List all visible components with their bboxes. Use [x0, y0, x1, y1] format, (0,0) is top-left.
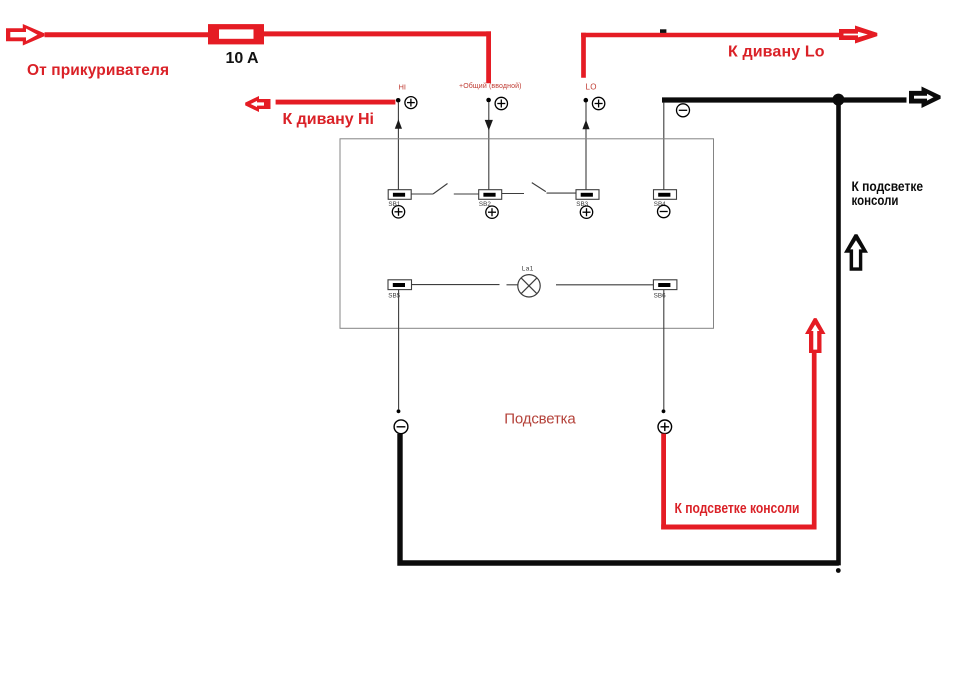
wire: lamp left lead [507, 284, 518, 286]
wire: lead SB5 down to backlight minus [398, 290, 400, 410]
wire: lead from HI dot to SB1 [397, 102, 399, 190]
terminal polarity: plus backlight [658, 420, 672, 434]
switch S1 between SB1 and SB2 [411, 184, 479, 195]
wire: LO vertical red riser [581, 33, 586, 78]
wire: red backlight plus horizontal [661, 525, 816, 530]
node: dot above backlight plus [662, 409, 666, 413]
node: HI dot [396, 98, 401, 103]
wire: lamp to SB6 [556, 284, 653, 286]
svg-text:К дивану Hi: К дивану Hi [283, 111, 375, 128]
wire: fuse to common input, horizontal [264, 31, 492, 36]
node: common input dot [486, 98, 491, 103]
wire: lead from LO dot to SB3 [585, 102, 587, 189]
wire: feed from input arrow to fuse [45, 32, 209, 37]
switch S2 between SB2 and SB3 [502, 183, 576, 194]
terminal polarity: minus at black feed [677, 104, 690, 117]
svg-text:От прикуривателя: От прикуривателя [27, 62, 169, 79]
svg-text:La1: La1 [522, 266, 534, 273]
arrow A3: to sofa Hi output arrow (left) [245, 96, 270, 112]
svg-text:К дивану Lo: К дивану Lo [728, 43, 825, 60]
fuse FU1 [208, 24, 264, 44]
node: junction on minus feed [832, 94, 844, 106]
switch module box [340, 139, 714, 328]
arrow A1: supply input arrow (from cigarette lighter) [6, 24, 44, 46]
terminal polarity: minus backlight [394, 420, 408, 434]
terminal SB4 [654, 190, 677, 200]
svg-text:консоли: консоли [852, 192, 899, 208]
node: LO dot [584, 98, 589, 103]
wire: SB5 to lamp [412, 284, 500, 286]
svg-text:10 A: 10 A [226, 50, 259, 67]
wire: to sofa Lo horizontal [581, 33, 840, 38]
svg-text:К подсветке консоли: К подсветке консоли [675, 501, 800, 517]
arrow A5: black up arrow on console wire [844, 234, 868, 271]
arrowhead: current up on HI lead [395, 119, 402, 128]
artifact mark on Lo wire [660, 29, 666, 33]
terminal SB1 [388, 190, 411, 200]
arrow A6: red up arrow to console backlight [805, 318, 826, 353]
wire: lead from common input dot to SB2 [488, 102, 490, 190]
wire: black backlight return (down, right along bottom) [400, 434, 839, 563]
terminal SB3 [576, 190, 599, 200]
wire: black vertical to console backlight [836, 97, 841, 565]
wire: lead SB6 down to backlight plus [663, 290, 665, 410]
wire: black minus feed horizontal (top) [662, 97, 907, 102]
terminal SB5 [388, 280, 412, 290]
arrow A4: minus feed output arrow (right) [909, 87, 941, 109]
terminal polarity: plus under SB2 [486, 206, 498, 218]
svg-text:+Общий (вводной): +Общий (вводной) [459, 82, 522, 90]
wire: lead from minus feed to SB4 [663, 102, 665, 189]
terminal polarity: minus under SB4 [658, 205, 670, 217]
wire: common input vertical drop [486, 31, 491, 83]
wire: red backlight plus drop [661, 434, 666, 530]
terminal polarity: plus under SB3 [580, 206, 592, 218]
arrowhead: current up on LO lead [582, 120, 589, 129]
artifact: corner blob bottom right [836, 568, 841, 573]
wire: Hi output horizontal [276, 100, 396, 105]
wire: red backlight plus riser [812, 352, 817, 530]
terminal polarity: plus under SB1 [392, 206, 404, 218]
lamp La1 [518, 275, 540, 297]
svg-text:LO: LO [586, 83, 597, 92]
terminal polarity: plus at common input [495, 97, 507, 109]
arrow A2: to sofa Lo output arrow [839, 26, 877, 44]
terminal polarity: plus at LO [592, 97, 604, 109]
terminal SB2 [479, 190, 502, 200]
terminal polarity: plus at HI [405, 97, 417, 109]
arrowhead: current into box on common lead [485, 120, 493, 131]
node: dot above backlight minus [397, 409, 401, 413]
svg-text:Подсветка: Подсветка [504, 410, 576, 427]
svg-text:HI: HI [399, 83, 407, 92]
terminal SB6 [653, 280, 677, 290]
